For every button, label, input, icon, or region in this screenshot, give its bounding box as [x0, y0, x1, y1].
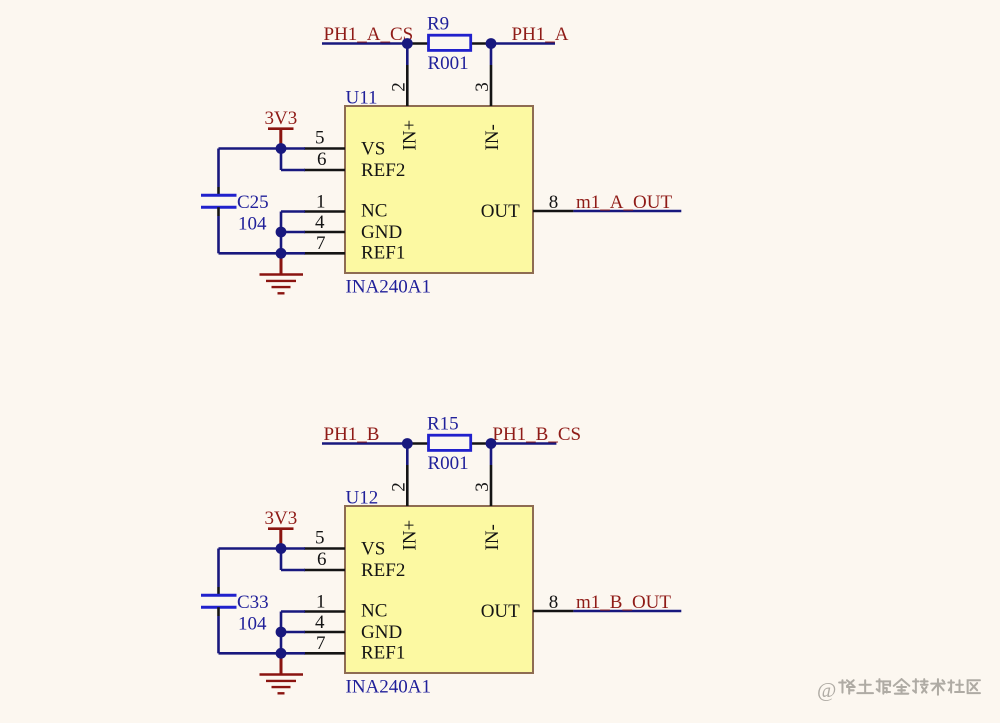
svg-text:8: 8: [549, 192, 559, 213]
svg-text:PH1_B: PH1_B: [324, 424, 380, 445]
wire: [281, 231, 305, 234]
node junction right: [486, 438, 497, 449]
pin 6 REF2: [304, 149, 405, 181]
svg-text:4: 4: [315, 212, 325, 233]
pin 5 VS: [304, 128, 385, 160]
node junction GND pin4: [276, 627, 287, 638]
wire: [280, 149, 283, 171]
svg-text:VS: VS: [361, 139, 385, 160]
svg-text:IN-: IN-: [482, 524, 503, 550]
wire: [281, 610, 305, 613]
node junction right: [486, 38, 497, 49]
pin 2 IN+: [389, 65, 421, 151]
pin 4 GND: [304, 212, 402, 243]
wire: [406, 44, 409, 66]
svg-text:4: 4: [315, 612, 325, 633]
svg-text:R001: R001: [428, 53, 469, 74]
wire: [217, 549, 220, 588]
svg-text:3: 3: [472, 482, 493, 492]
svg-text:REF1: REF1: [361, 642, 405, 663]
svg-text:8: 8: [549, 592, 559, 613]
capacitor C33: [201, 587, 269, 635]
pin 2 IN+: [389, 465, 421, 551]
svg-text:6: 6: [317, 549, 327, 570]
svg-text:VS: VS: [361, 539, 385, 560]
svg-text:U11: U11: [346, 88, 378, 109]
resistor R15: [407, 414, 491, 474]
svg-text:1: 1: [316, 192, 326, 213]
svg-text:3V3: 3V3: [265, 508, 298, 529]
svg-text:PH1_B_CS: PH1_B_CS: [492, 424, 581, 445]
wire: [281, 169, 305, 172]
svg-text:PH1_A_CS: PH1_A_CS: [324, 24, 414, 45]
wire: [281, 631, 305, 634]
wire: [490, 44, 493, 66]
wire: [217, 616, 220, 653]
svg-text:3V3: 3V3: [265, 108, 298, 129]
svg-text:U12: U12: [346, 488, 379, 509]
wire: [490, 444, 493, 466]
svg-text:GND: GND: [361, 222, 402, 243]
power 3V3: [265, 508, 298, 549]
svg-text:1: 1: [316, 592, 326, 613]
svg-text:NC: NC: [361, 601, 387, 622]
op-amp U11 INA240A1: [345, 88, 533, 298]
wire: [491, 42, 555, 45]
watermark: [817, 678, 980, 702]
pin 3 IN-: [472, 65, 503, 151]
node junction REF1 pin7: [276, 648, 287, 659]
capacitor C25: [201, 187, 269, 235]
power 3V3: [265, 108, 298, 149]
pin 8 OUT: [481, 592, 574, 622]
svg-text:PH1_A: PH1_A: [512, 24, 569, 45]
svg-text:2: 2: [389, 82, 410, 92]
wire: [322, 442, 407, 445]
pin 8 OUT: [481, 192, 574, 222]
pin 7 REF1: [304, 633, 405, 663]
node junction REF1 pin7: [276, 248, 287, 259]
svg-text:3: 3: [472, 82, 493, 92]
node junction GND pin4: [276, 227, 287, 238]
wire: [406, 444, 409, 466]
wire: [280, 549, 283, 571]
resistor R9: [407, 14, 491, 74]
svg-text:REF2: REF2: [361, 560, 405, 581]
svg-text:NC: NC: [361, 201, 387, 222]
wire: [491, 442, 556, 445]
node junction left: [402, 38, 413, 49]
wire: [322, 42, 407, 45]
svg-text:m1_A_OUT: m1_A_OUT: [576, 192, 672, 213]
pin 1 NC: [304, 192, 387, 222]
svg-text:R15: R15: [427, 414, 459, 435]
op-amp U12 INA240A1: [345, 488, 533, 698]
svg-text:REF1: REF1: [361, 242, 405, 263]
node junction 3V3: [276, 543, 287, 554]
svg-text:6: 6: [317, 149, 327, 170]
pin 5 VS: [304, 528, 385, 560]
svg-text:IN+: IN+: [400, 120, 421, 151]
pin 6 REF2: [304, 549, 405, 581]
node junction 3V3: [276, 143, 287, 154]
wire: [280, 612, 283, 654]
wire: [219, 252, 306, 255]
svg-text:7: 7: [316, 633, 326, 654]
wire: [219, 547, 306, 550]
svg-text:5: 5: [315, 128, 325, 149]
svg-text:@: @: [817, 678, 836, 702]
wire: [281, 569, 305, 572]
wire: [219, 652, 306, 655]
ground: [260, 653, 304, 693]
wire: [281, 210, 305, 213]
wire: [573, 210, 681, 213]
svg-text:REF2: REF2: [361, 160, 405, 181]
svg-text:104: 104: [238, 214, 267, 235]
svg-text:2: 2: [389, 482, 410, 492]
svg-text:C33: C33: [237, 592, 269, 613]
pin 7 REF1: [304, 233, 405, 263]
node junction left: [402, 438, 413, 449]
wire: [217, 149, 220, 188]
svg-text:7: 7: [316, 233, 326, 254]
pin 3 IN-: [472, 465, 503, 551]
svg-text:5: 5: [315, 528, 325, 549]
wire: [280, 212, 283, 254]
svg-text:OUT: OUT: [481, 201, 520, 222]
svg-text:INA240A1: INA240A1: [346, 277, 432, 298]
pin 1 NC: [304, 592, 387, 622]
wire: [219, 147, 306, 150]
svg-text:IN-: IN-: [482, 124, 503, 150]
ground: [260, 253, 304, 293]
svg-text:104: 104: [238, 614, 267, 635]
wire: [573, 610, 681, 613]
svg-text:R9: R9: [427, 14, 449, 35]
svg-text:C25: C25: [237, 192, 269, 213]
svg-text:R001: R001: [428, 453, 469, 474]
svg-text:GND: GND: [361, 622, 402, 643]
svg-text:IN+: IN+: [400, 520, 421, 551]
svg-text:OUT: OUT: [481, 601, 520, 622]
pin 4 GND: [304, 612, 402, 643]
svg-text:INA240A1: INA240A1: [346, 677, 432, 698]
svg-text:m1_B_OUT: m1_B_OUT: [576, 592, 671, 613]
wire: [217, 216, 220, 253]
